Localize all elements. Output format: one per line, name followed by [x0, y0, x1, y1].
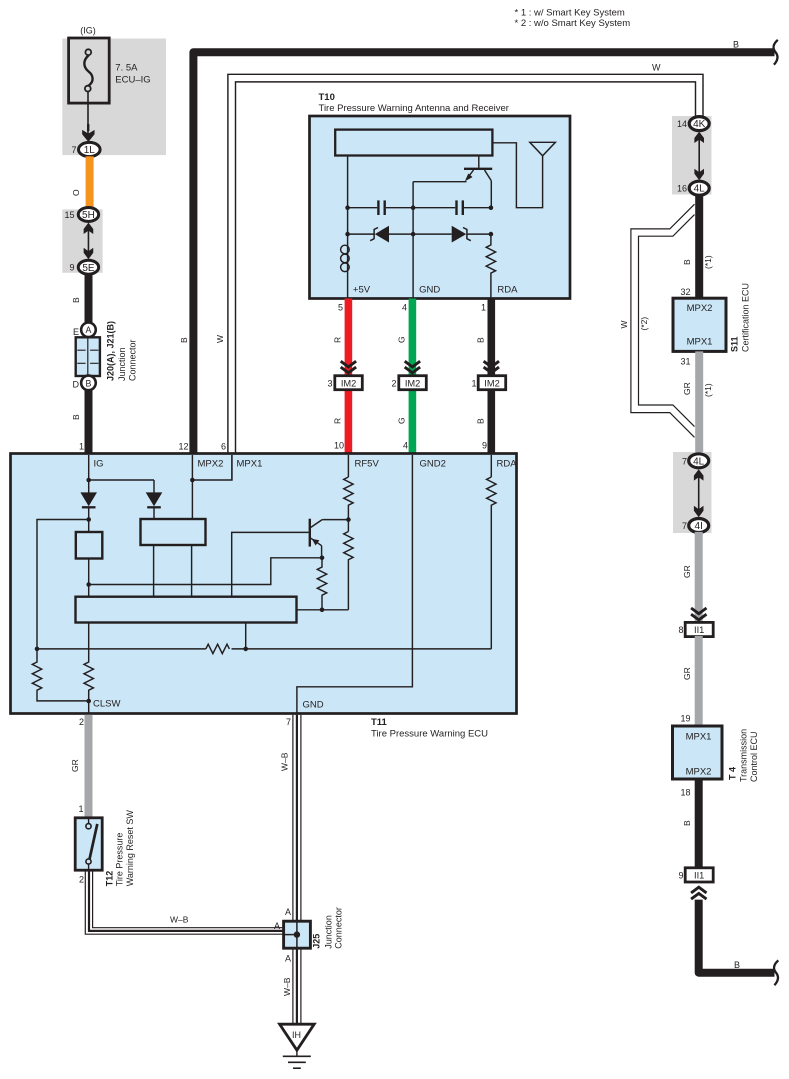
svg-text:GR: GR — [682, 667, 692, 680]
svg-text:B: B — [733, 40, 739, 50]
wire IG internal — [88, 455, 90, 493]
arrow pair between 4K and 4L — [694, 132, 704, 143]
svg-text:3: 3 — [327, 379, 332, 389]
arrow pair between 5H and 5E — [84, 223, 94, 234]
wire +5V internal — [347, 156, 349, 299]
svg-text:GR: GR — [682, 382, 692, 395]
wire GND2 internal — [297, 455, 413, 713]
gray background 4L 4I connector — [673, 452, 712, 533]
svg-text:19: 19 — [680, 714, 690, 724]
wire B thick bottom right — [699, 900, 775, 973]
svg-text:7: 7 — [286, 717, 291, 727]
capacitor C1 — [377, 200, 379, 215]
node dots diode row — [345, 232, 350, 237]
svg-text:1: 1 — [481, 303, 486, 313]
ground IH triangle — [280, 1024, 315, 1050]
diode row wire — [348, 233, 375, 235]
wire GR gray CLSW — [85, 715, 93, 818]
svg-text:T 4: T 4 — [728, 767, 738, 780]
svg-text:R: R — [333, 337, 343, 343]
svg-text:S11: S11 — [730, 336, 740, 352]
svg-text:9: 9 — [69, 263, 74, 273]
svg-text:4: 4 — [403, 441, 408, 451]
svg-text:(*1): (*1) — [703, 255, 713, 269]
node IG branch — [86, 478, 91, 483]
svg-text:Transmission: Transmission — [739, 729, 749, 782]
node emitter — [320, 556, 325, 561]
svg-text:1L: 1L — [84, 145, 96, 156]
wire W-B from T11 GND down — [292, 715, 294, 922]
svg-text:W: W — [652, 63, 661, 73]
wire W-B J25 to ground — [292, 948, 294, 1024]
connector 4I — [689, 519, 709, 533]
wire ground net horizontal — [37, 648, 206, 650]
arrow into 1L — [82, 130, 94, 142]
svg-text:Connector: Connector — [334, 907, 344, 949]
gray background 5H 5E connector — [62, 209, 102, 272]
node IG to left branch — [86, 517, 91, 522]
svg-text:W: W — [215, 335, 225, 343]
node left ground net — [35, 647, 40, 652]
svg-text:4L: 4L — [694, 184, 706, 195]
connector II1 lower — [685, 868, 713, 882]
svg-text:7: 7 — [682, 456, 687, 466]
svg-text:B: B — [476, 418, 486, 424]
svg-text:D: D — [73, 380, 80, 390]
svg-text:B: B — [179, 337, 189, 343]
svg-text:G: G — [397, 336, 407, 343]
node dots capacitor row — [345, 205, 350, 210]
resistor R1 — [344, 477, 353, 532]
node RF5V — [346, 517, 351, 522]
wire RF5V to bar — [297, 609, 349, 611]
svg-text:MPX1: MPX1 — [687, 337, 713, 348]
svg-text:II1: II1 — [694, 871, 704, 881]
svg-text:B: B — [682, 820, 692, 826]
svg-text:B: B — [682, 259, 692, 265]
arrow chevrons into IM2 no2 — [405, 361, 420, 373]
wire B black upper — [85, 273, 93, 323]
svg-text:J20(A), J21(B): J20(A), J21(B) — [106, 321, 116, 381]
node MPX join — [190, 478, 195, 483]
S11 Certification ECU box — [673, 298, 726, 351]
svg-text:MPX2: MPX2 — [687, 303, 713, 314]
svg-text:9: 9 — [678, 870, 683, 880]
svg-text:IH: IH — [292, 1030, 301, 1040]
wire GR 4I to II1 — [695, 532, 703, 623]
svg-text:7. 5A: 7. 5A — [115, 63, 138, 74]
connector pin A circle — [81, 323, 96, 338]
svg-text:B: B — [71, 414, 81, 420]
wire left branch — [37, 520, 89, 649]
wire MPX1 internal — [192, 455, 232, 480]
zener diode D1 — [375, 226, 389, 243]
wire R red — [345, 299, 353, 378]
connector 4L — [689, 181, 709, 195]
svg-text:E: E — [73, 327, 79, 337]
svg-text:IG: IG — [94, 459, 104, 470]
connector 5E — [78, 260, 98, 274]
svg-text:R: R — [333, 418, 343, 424]
svg-text:B: B — [476, 337, 486, 343]
connector 4L lower — [689, 454, 709, 468]
block small square — [76, 532, 103, 559]
svg-text:4K: 4K — [693, 119, 706, 130]
svg-text:GND2: GND2 — [420, 459, 446, 470]
T4 Transmission Control ECU box — [673, 726, 723, 779]
svg-text:Tire Pressure Warning Antenna: Tire Pressure Warning Antenna and Receiv… — [319, 103, 509, 114]
svg-text:5E: 5E — [82, 263, 95, 274]
connector II1 upper — [685, 622, 713, 636]
svg-text:A: A — [285, 907, 291, 917]
arrow chevrons up from B wire — [691, 887, 706, 899]
svg-text:1: 1 — [79, 442, 84, 452]
svg-text:10: 10 — [334, 441, 344, 451]
junction connector J25 box — [284, 921, 311, 948]
transistor Q1 — [478, 156, 480, 168]
svg-text:J25: J25 — [312, 934, 322, 949]
gray background fuse area — [62, 39, 166, 156]
svg-text:15: 15 — [64, 210, 74, 220]
wire B thick main top — [193, 52, 774, 454]
svg-text:2: 2 — [79, 875, 84, 885]
fuse F1 symbol — [84, 55, 92, 86]
svg-text:W–B: W–B — [170, 915, 189, 925]
svg-text:MPX1: MPX1 — [686, 732, 712, 743]
resistor R2 — [344, 532, 353, 610]
svg-text:RF5V: RF5V — [355, 459, 380, 470]
svg-text:B: B — [86, 378, 92, 388]
svg-text:Certification ECU: Certification ECU — [741, 283, 751, 352]
arrow chevrons into IM2 no3 — [341, 361, 356, 373]
svg-text:Junction: Junction — [117, 347, 127, 381]
wire RDA internal — [490, 455, 492, 477]
T10 antenna and receiver box — [310, 116, 571, 299]
resistor R5 RDA — [487, 477, 496, 649]
wire B black mid — [488, 299, 496, 378]
svg-text:MPX2: MPX2 — [686, 766, 712, 777]
svg-text:T11: T11 — [371, 717, 388, 728]
svg-text:MPX2: MPX2 — [198, 459, 224, 470]
wire O orange — [86, 156, 94, 208]
svg-text:ECU–IG: ECU–IG — [115, 75, 150, 86]
wire B T4 to II1 — [695, 779, 703, 868]
diode D4 — [146, 492, 163, 506]
connector 4K — [689, 117, 709, 131]
svg-text:B: B — [71, 297, 81, 303]
svg-text:CLSW: CLSW — [93, 699, 120, 710]
svg-text:12: 12 — [178, 442, 188, 452]
ground hatch — [296, 1050, 298, 1056]
capacitor row wire — [348, 207, 378, 209]
svg-text:T12: T12 — [105, 871, 115, 887]
resistor R3 emitter — [317, 558, 326, 610]
svg-text:GR: GR — [682, 565, 692, 578]
zener diode D2 — [452, 226, 467, 243]
wire fuse to 1L — [87, 92, 89, 136]
svg-text:RDA: RDA — [497, 284, 518, 295]
connector 1L — [79, 142, 101, 156]
svg-text:7: 7 — [71, 145, 76, 155]
svg-text:* 2 : w/o Smart Key System: * 2 : w/o Smart Key System — [515, 18, 631, 29]
svg-text:T10: T10 — [319, 92, 335, 103]
svg-text:4I: 4I — [695, 521, 703, 532]
svg-text:O: O — [71, 189, 81, 196]
svg-text:A: A — [86, 325, 92, 335]
svg-text:31: 31 — [680, 357, 690, 367]
svg-text:Connector: Connector — [128, 339, 138, 381]
svg-text:A: A — [285, 954, 291, 964]
svg-text:(*1): (*1) — [703, 383, 713, 397]
resistor R4 horizontal — [206, 644, 230, 653]
arrow chevrons into II1 — [691, 608, 706, 620]
svg-text:2: 2 — [79, 717, 84, 727]
arrow chevrons into IM2 no1 — [484, 361, 499, 373]
svg-text:(*2): (*2) — [639, 317, 649, 331]
svg-text:1: 1 — [78, 804, 83, 814]
svg-text:Control ECU: Control ECU — [749, 731, 759, 782]
svg-text:16: 16 — [677, 184, 687, 194]
resistor R7 CLSW — [84, 623, 93, 714]
wire branch to diode D4 — [89, 479, 154, 481]
svg-text:6: 6 — [221, 442, 226, 452]
antenna symbol — [530, 142, 556, 156]
svg-text:W–B: W–B — [280, 752, 290, 771]
fuse F1 box — [69, 38, 110, 103]
wire GR S11 to 4L — [695, 351, 703, 454]
svg-text:5: 5 — [338, 303, 343, 313]
svg-text:GND: GND — [419, 284, 440, 295]
svg-text:* 1 : w/ Smart Key System: * 1 : w/ Smart Key System — [515, 8, 625, 19]
svg-text:MPX1: MPX1 — [237, 459, 263, 470]
capacitor C2 — [455, 200, 457, 215]
svg-text:1: 1 — [471, 379, 476, 389]
node CLSW — [86, 699, 91, 704]
connector 5H — [78, 207, 98, 221]
antenna wire path — [492, 143, 542, 208]
wire G green — [409, 299, 417, 378]
wire W-B from T12 to J25 — [85, 870, 284, 934]
break symbol top right — [774, 40, 778, 65]
svg-text:32: 32 — [680, 287, 690, 297]
node on square wire — [86, 582, 91, 587]
wires below MPX rect — [153, 545, 155, 597]
svg-text:+5V: +5V — [353, 284, 371, 295]
wire GR II1 to T4 — [695, 636, 703, 726]
svg-text:7: 7 — [682, 521, 687, 531]
wire W bypass (*2) — [631, 204, 695, 437]
svg-text:A: A — [274, 921, 280, 931]
svg-text:IM2: IM2 — [484, 378, 500, 388]
wire base line Q2 — [232, 532, 309, 596]
inductor L1 — [341, 245, 350, 254]
svg-text:II1: II1 — [694, 625, 704, 635]
svg-text:G: G — [397, 417, 407, 424]
connector pin B circle — [81, 376, 96, 391]
svg-text:Warning Reset SW: Warning Reset SW — [125, 810, 135, 887]
svg-text:W–B: W–B — [282, 977, 292, 996]
gray background 4K 4L connector — [672, 116, 712, 195]
wire RF5V internal — [347, 455, 349, 477]
wire MPX2 internal — [191, 455, 193, 519]
T11 ECU box — [11, 454, 517, 714]
switch T12 contacts — [88, 818, 90, 824]
svg-text:B: B — [734, 960, 740, 970]
wire W from MPX1 to 4K — [228, 74, 703, 454]
node J25 — [294, 931, 300, 937]
svg-text:GND: GND — [303, 700, 324, 711]
arrow pair between 4L and 4I — [694, 469, 704, 480]
svg-text:4L: 4L — [693, 456, 705, 467]
svg-text:4: 4 — [402, 303, 407, 313]
resistor R6 left — [32, 649, 88, 701]
switch T12 box — [75, 818, 102, 870]
junction connector J20/J21 box — [76, 337, 100, 376]
svg-text:IM2: IM2 — [341, 378, 357, 388]
wire bar bottom to ground net — [245, 623, 247, 649]
wire node to emitter net — [89, 558, 322, 585]
wire square to bar — [88, 559, 90, 597]
diode D3 — [80, 492, 97, 506]
svg-text:Junction: Junction — [324, 915, 334, 949]
svg-text:W: W — [619, 320, 629, 328]
block long bar — [76, 597, 297, 623]
wire B to S11 — [695, 195, 703, 299]
break symbol bottom right — [774, 960, 778, 985]
svg-text:RDA: RDA — [497, 459, 518, 470]
svg-text:IM2: IM2 — [405, 378, 421, 388]
svg-text:Tire Pressure Warning ECU: Tire Pressure Warning ECU — [371, 729, 488, 740]
svg-text:9: 9 — [482, 441, 487, 451]
svg-text:14: 14 — [677, 119, 687, 129]
svg-text:18: 18 — [680, 788, 690, 798]
wire B black lower — [85, 390, 93, 454]
transistor Q2 — [309, 519, 311, 547]
svg-text:(IG): (IG) — [80, 26, 96, 36]
wire GND internal — [412, 182, 414, 299]
svg-text:5H: 5H — [82, 210, 95, 221]
node ground net — [243, 647, 248, 652]
svg-text:2: 2 — [391, 379, 396, 389]
resistor R-RDA internal — [486, 234, 495, 298]
T10 tuner block — [335, 130, 492, 156]
svg-text:8: 8 — [678, 625, 683, 635]
block MPX rect — [141, 519, 206, 545]
node emitter bottom — [320, 608, 325, 613]
svg-text:Tire Pressure: Tire Pressure — [115, 833, 125, 887]
svg-text:GR: GR — [70, 759, 80, 772]
